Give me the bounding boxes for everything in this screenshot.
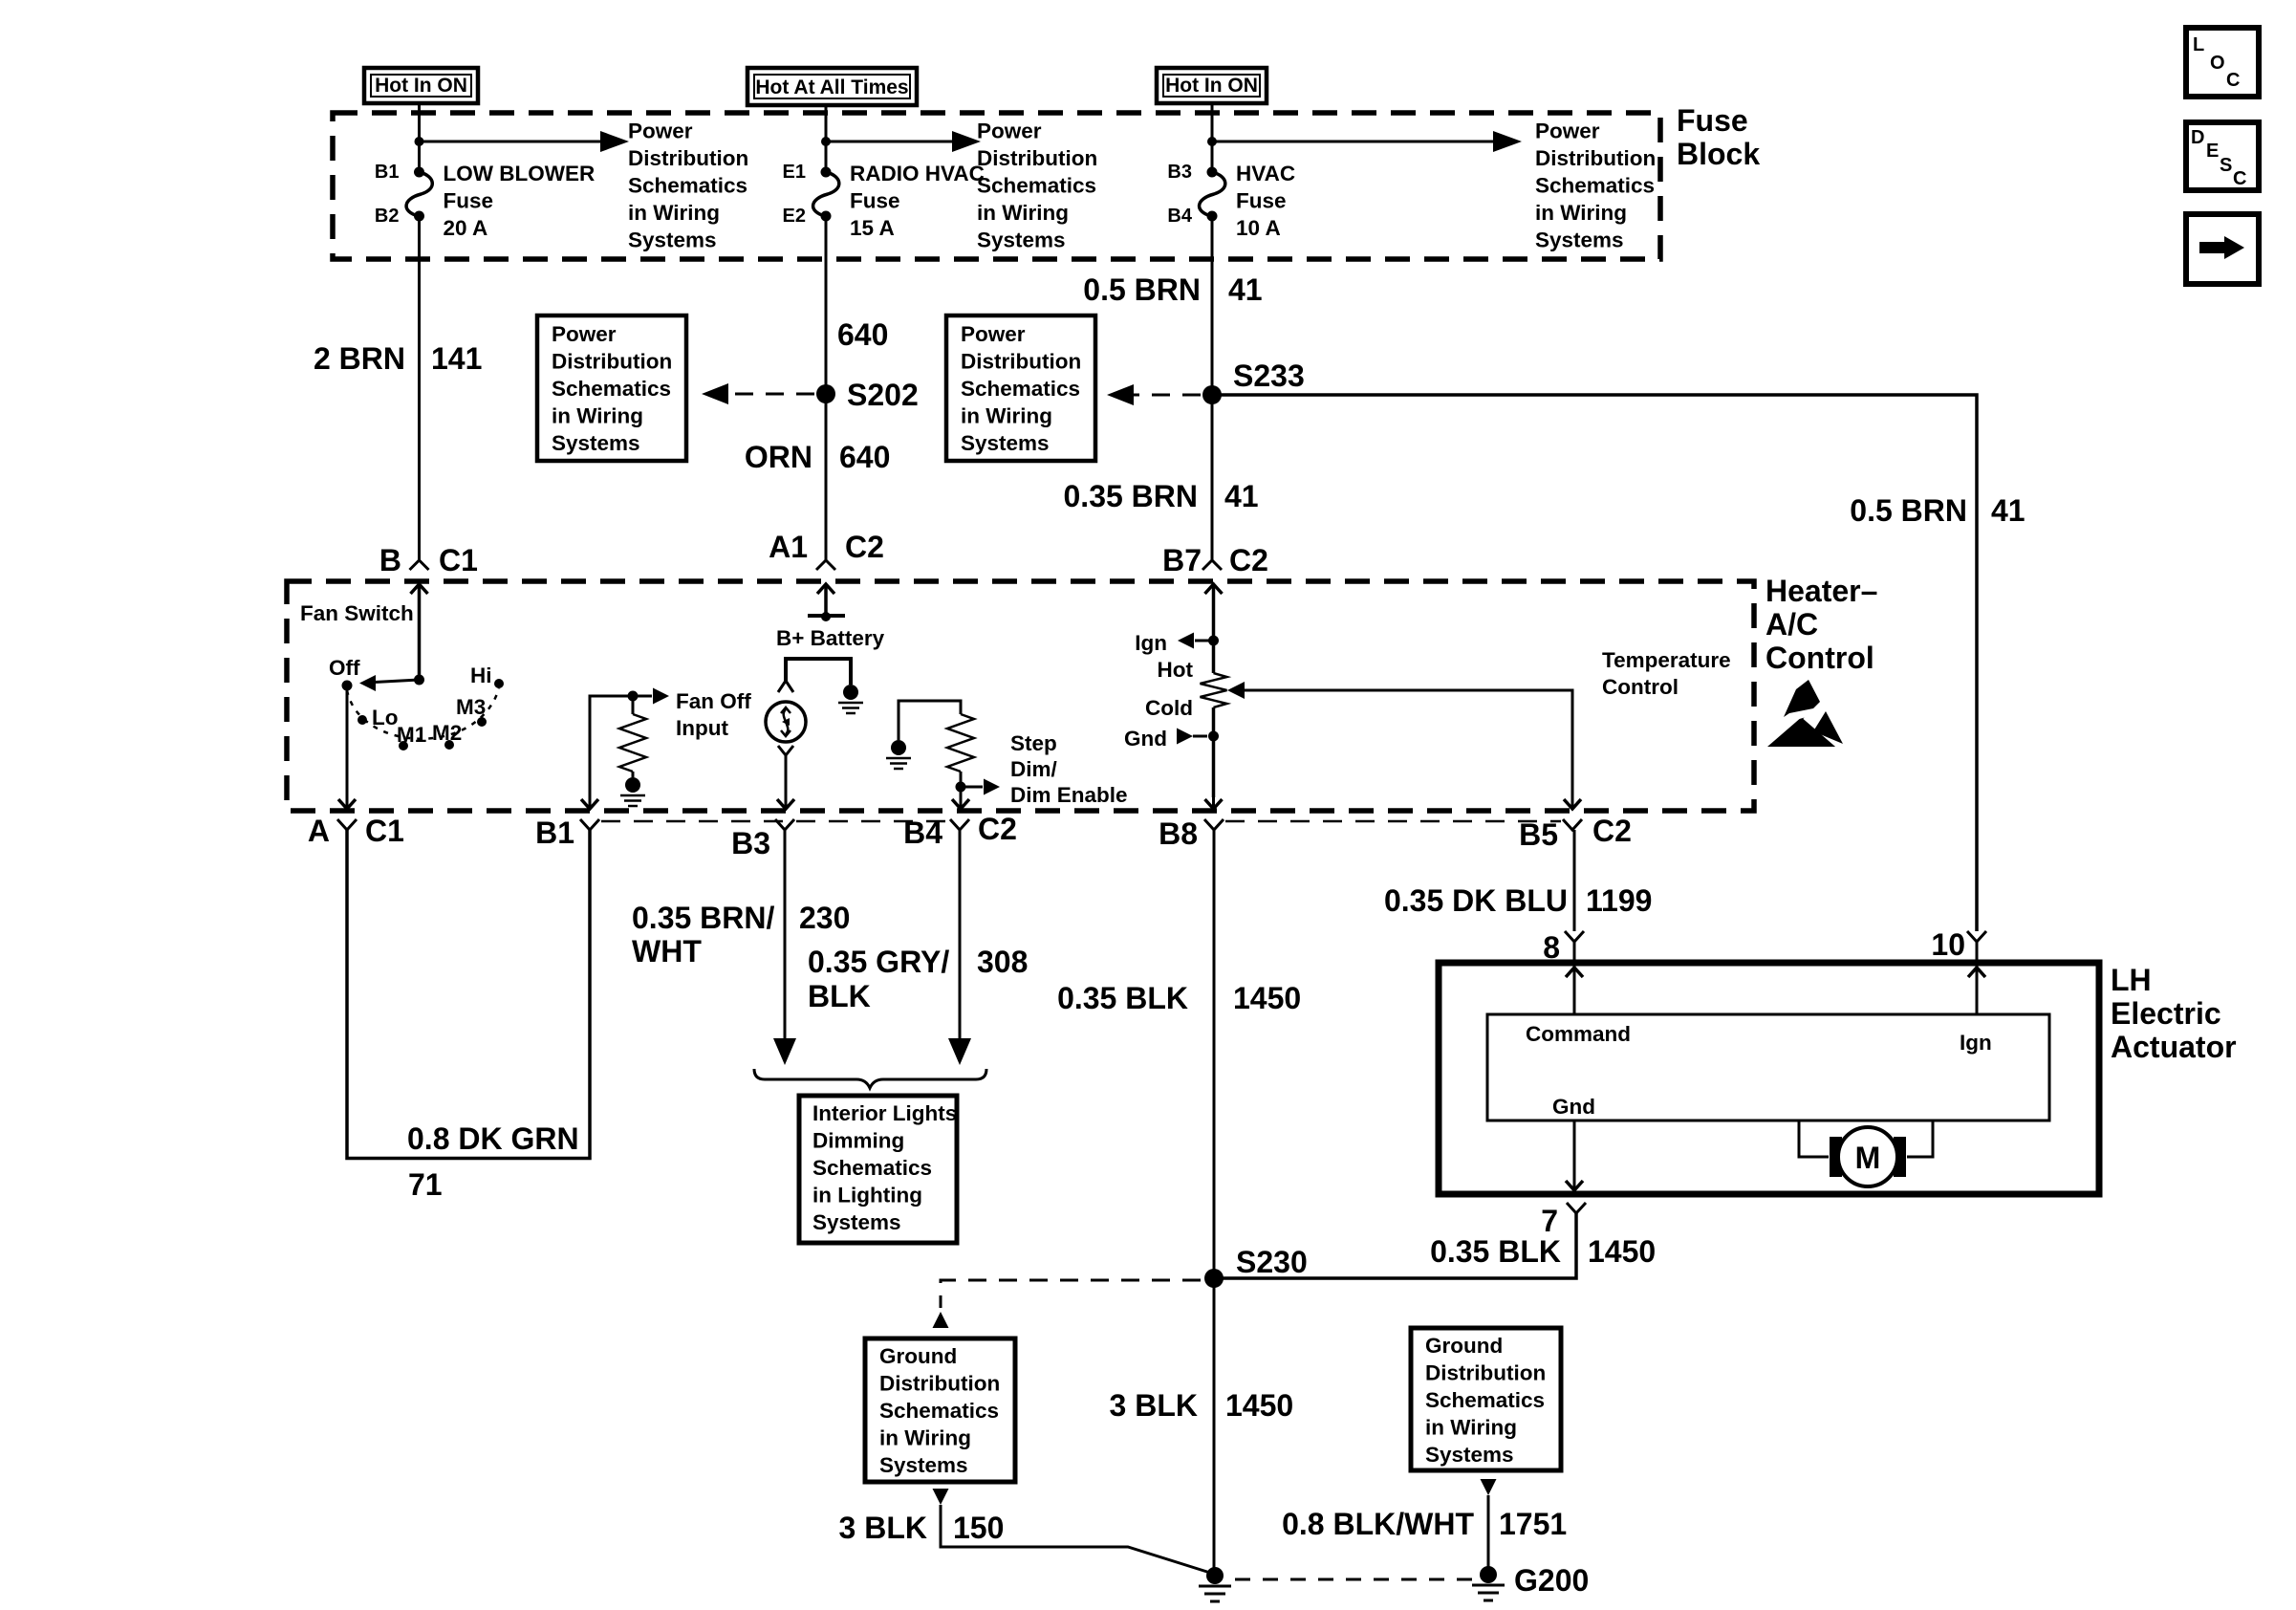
svg-text:S233: S233 <box>1233 359 1305 393</box>
svg-text:Control: Control <box>1602 675 1679 699</box>
fuse RADIO HVAC 15 A <box>821 167 832 178</box>
svg-text:10 A: 10 A <box>1236 216 1281 240</box>
svg-text:Schematics: Schematics <box>812 1156 932 1180</box>
svg-text:Schematics: Schematics <box>1425 1388 1545 1412</box>
wire 0.8 DK GRN 71 loop <box>347 830 590 1159</box>
svg-text:Distribution: Distribution <box>977 146 1097 170</box>
svg-text:3 BLK: 3 BLK <box>839 1511 927 1545</box>
svg-text:E: E <box>2206 141 2219 162</box>
svg-text:B4: B4 <box>903 816 942 850</box>
svg-text:Systems: Systems <box>961 431 1050 455</box>
svg-text:Power: Power <box>1535 120 1600 143</box>
svg-text:0.5 BRN: 0.5 BRN <box>1850 493 1967 528</box>
connector fork B1 <box>580 819 599 830</box>
svg-text:Fuse: Fuse <box>850 189 900 213</box>
svg-text:B: B <box>379 543 401 577</box>
svg-text:C: C <box>2233 168 2246 189</box>
wire 3 BLK 150 to ground <box>941 1505 1210 1573</box>
icon arrow <box>2186 214 2259 284</box>
svg-text:in Wiring: in Wiring <box>961 404 1052 428</box>
node junction on radio hvac feed <box>821 137 831 146</box>
dashed arrow S202 to power distribution <box>728 393 814 396</box>
svg-text:10: 10 <box>1931 927 1965 962</box>
svg-text:Distribution: Distribution <box>628 146 748 170</box>
svg-text:O: O <box>2210 53 2225 74</box>
svg-text:C2: C2 <box>978 812 1017 846</box>
svg-text:308: 308 <box>977 945 1028 979</box>
svg-text:Off: Off <box>329 656 360 680</box>
svg-text:Distribution: Distribution <box>879 1372 1000 1396</box>
potentiometer temperature control <box>1201 673 1227 707</box>
wire step dim top rail <box>899 701 961 740</box>
node Gnd tap <box>1208 731 1219 742</box>
svg-text:1450: 1450 <box>1233 981 1301 1015</box>
svg-text:230: 230 <box>799 901 850 935</box>
actuator module inner box <box>1487 1014 2049 1120</box>
wire from Hot In ON to fuse B1 <box>418 103 421 169</box>
svg-text:Systems: Systems <box>879 1453 968 1477</box>
ground G200 <box>1480 1566 1497 1583</box>
svg-text:0.5 BRN: 0.5 BRN <box>1083 272 1201 307</box>
connector fork B C1 <box>410 560 429 570</box>
wire pot to connector B8 <box>1212 707 1216 797</box>
wire arrow Fan Off Input <box>633 695 652 698</box>
reference box ground distribution (left) <box>865 1338 1015 1482</box>
svg-text:Block: Block <box>1677 137 1760 171</box>
svg-text:Distribution: Distribution <box>961 350 1081 374</box>
arrow below ground distribution right <box>1481 1479 1497 1495</box>
arrow out to connector B3 <box>777 799 794 809</box>
wire current source to B3 <box>785 755 788 797</box>
svg-text:Interior Lights: Interior Lights <box>812 1101 957 1125</box>
arrow out to connector B1 <box>581 799 598 809</box>
svg-text:Hot In ON: Hot In ON <box>1165 75 1258 97</box>
svg-text:Gnd: Gnd <box>1124 727 1167 751</box>
resistor step dim <box>947 714 974 772</box>
connector fork A1 C2 <box>816 560 835 570</box>
svg-text:Systems: Systems <box>628 228 717 252</box>
svg-text:Hi: Hi <box>470 664 492 687</box>
connector B8-B5 dashed link <box>1225 820 1561 823</box>
wire 2 BRN 141 fuse B2 to fan switch B <box>418 216 421 560</box>
fan switch rotary arc dashed <box>347 688 499 739</box>
svg-text:D: D <box>2191 127 2204 148</box>
svg-text:Distribution: Distribution <box>552 350 672 374</box>
svg-text:3 BLK: 3 BLK <box>1110 1388 1198 1423</box>
svg-text:15 A: 15 A <box>850 216 895 240</box>
node M1 contact <box>399 741 408 751</box>
svg-text:B3: B3 <box>731 826 770 860</box>
svg-text:Schematics: Schematics <box>552 377 671 401</box>
svg-text:C2: C2 <box>1229 543 1268 577</box>
svg-text:in Wiring: in Wiring <box>552 404 643 428</box>
fuse LOW BLOWER 20 A <box>414 167 424 178</box>
connector fork pin 10 <box>1967 931 1986 942</box>
svg-text:WHT: WHT <box>632 934 702 968</box>
svg-text:A1: A1 <box>769 530 808 564</box>
svg-text:B1: B1 <box>375 162 400 183</box>
svg-text:Ign: Ign <box>1135 631 1167 655</box>
wire Gnd to pin 7 <box>1573 1120 1576 1190</box>
wire from Hot In ON to fuse B3 <box>1211 103 1214 169</box>
svg-text:in Wiring: in Wiring <box>1535 201 1627 225</box>
svg-text:Fan Switch: Fan Switch <box>300 601 414 625</box>
connector fork B8 <box>1204 819 1224 830</box>
svg-text:Power: Power <box>961 322 1026 346</box>
svg-text:A: A <box>308 814 330 848</box>
svg-text:0.35 BLK: 0.35 BLK <box>1057 981 1188 1015</box>
wire pin 7 to S230 <box>1214 1213 1576 1278</box>
reference box interior lights dimming <box>799 1096 957 1243</box>
svg-text:B+ Battery: B+ Battery <box>776 626 885 650</box>
splice S202 <box>816 384 835 403</box>
svg-text:71: 71 <box>408 1167 443 1202</box>
svg-text:S230: S230 <box>1236 1245 1308 1279</box>
wire arrow Step Dim enable <box>961 786 983 789</box>
wire 0.5 BRN 41 from S233 to actuator pin 10 <box>1212 395 1977 931</box>
svg-text:Schematics: Schematics <box>961 377 1080 401</box>
svg-text:S202: S202 <box>847 378 919 412</box>
svg-text:150: 150 <box>953 1511 1004 1545</box>
svg-text:2 BRN: 2 BRN <box>314 341 405 376</box>
svg-text:Schematics: Schematics <box>977 174 1096 198</box>
svg-text:B4: B4 <box>1167 206 1192 227</box>
wire 0.8 BLK/WHT 1751 to G200 <box>1487 1495 1490 1568</box>
svg-text:B2: B2 <box>375 206 400 227</box>
power label box "Hot At All Times" <box>747 68 917 105</box>
svg-text:Systems: Systems <box>812 1210 901 1234</box>
svg-text:Systems: Systems <box>1425 1443 1514 1467</box>
svg-text:C: C <box>2226 70 2240 91</box>
ESD sensitive symbol <box>1767 716 1837 747</box>
connector fork B5 <box>1563 819 1582 830</box>
svg-text:41: 41 <box>1224 479 1259 513</box>
svg-text:0.35 BRN: 0.35 BRN <box>1064 479 1199 513</box>
wire 0.35 BLK 1450 B8 to S230 <box>1213 830 1216 1278</box>
svg-text:G200: G200 <box>1514 1563 1589 1598</box>
wire from Hot At All Times to fuse E1 <box>825 105 828 169</box>
svg-text:1751: 1751 <box>1499 1507 1567 1541</box>
wiper arrow temperature control <box>1227 682 1245 699</box>
arrow into fan switch from B <box>411 584 428 594</box>
wire pin 10 into module <box>1976 942 1979 1013</box>
svg-text:Hot In ON: Hot In ON <box>375 75 467 97</box>
svg-text:Hot At All Times: Hot At All Times <box>755 76 908 98</box>
battery feed tee <box>808 614 845 618</box>
wire motor right lead <box>1907 1120 1933 1157</box>
power label box "Hot In ON" (left) <box>364 68 478 103</box>
svg-text:E1: E1 <box>783 162 806 183</box>
svg-text:Power: Power <box>628 120 693 143</box>
connector fork pin 8 <box>1565 931 1584 942</box>
node Hi contact <box>494 679 504 688</box>
svg-text:Temperature: Temperature <box>1602 648 1731 672</box>
svg-text:Distribution: Distribution <box>1535 146 1656 170</box>
dashed arrow S233 to power distribution <box>1134 394 1201 397</box>
svg-text:B7: B7 <box>1162 543 1202 577</box>
node fan off junction <box>628 691 639 702</box>
dashed link main ground to G200 <box>1235 1578 1476 1581</box>
svg-text:in Wiring: in Wiring <box>977 201 1069 225</box>
svg-text:640: 640 <box>839 440 890 474</box>
brace interior lights <box>754 1069 986 1088</box>
wire arrow Gnd <box>1177 729 1193 745</box>
svg-text:640: 640 <box>837 317 888 352</box>
svg-text:M1: M1 <box>397 723 426 747</box>
wire 0.35 BRN/WHT 230 to interior lights <box>784 830 787 1038</box>
ground fan off resistor <box>625 777 640 793</box>
svg-text:B1: B1 <box>535 816 574 850</box>
motor M <box>1830 1137 1842 1177</box>
svg-text:Ground: Ground <box>879 1344 957 1368</box>
svg-text:Systems: Systems <box>977 228 1066 252</box>
node step dim junction <box>956 782 966 793</box>
wire arrow to power distribution (2) <box>826 141 952 143</box>
svg-text:Power: Power <box>552 322 617 346</box>
connector fork B7 C2 <box>1202 560 1222 570</box>
svg-text:Distribution: Distribution <box>1425 1361 1546 1385</box>
node M2 contact <box>444 740 454 750</box>
svg-text:Schematics: Schematics <box>879 1399 999 1423</box>
wire 0.35 DK BLU 1199 B5 to pin 8 <box>1573 830 1576 931</box>
wire ORN 640 fuse E2 to heater A1 <box>825 216 828 560</box>
svg-text:1199: 1199 <box>1586 883 1652 918</box>
svg-text:Ign: Ign <box>1960 1031 1992 1055</box>
fuse block dashed outline <box>333 113 1660 259</box>
svg-text:Fuse: Fuse <box>1236 189 1287 213</box>
svg-text:C2: C2 <box>845 530 884 564</box>
svg-text:Cold: Cold <box>1145 696 1193 720</box>
svg-text:C1: C1 <box>439 543 478 577</box>
power label box "Hot In ON" (right) <box>1157 68 1267 103</box>
svg-text:S: S <box>2220 155 2232 176</box>
reference box power distribution (right) <box>946 315 1095 461</box>
node junction on low blower feed <box>415 137 424 146</box>
wire arrow to power distribution (1) <box>420 141 601 143</box>
wire 3 BLK 1450 S230 to ground <box>1213 1278 1216 1570</box>
svg-text:BLK: BLK <box>808 979 871 1013</box>
wire junction to connector B4 <box>960 787 963 797</box>
wire arrow Ign <box>1195 640 1214 642</box>
ground battery rail <box>843 685 858 700</box>
fuse HVAC 10 A <box>1207 167 1218 178</box>
svg-text:0.35 GRY/: 0.35 GRY/ <box>808 945 949 979</box>
connector fork below current source <box>778 746 793 755</box>
svg-text:Systems: Systems <box>552 431 640 455</box>
svg-text:0.35 DK BLU: 0.35 DK BLU <box>1384 883 1568 918</box>
connector fork B4 <box>950 819 969 830</box>
arrow out to connector B4 <box>952 799 969 809</box>
svg-text:1450: 1450 <box>1225 1388 1293 1423</box>
arrow into heater at B7 <box>1205 584 1223 594</box>
connector fork A <box>337 819 357 830</box>
svg-text:Input: Input <box>676 716 728 740</box>
wire Off to connector A <box>346 685 349 797</box>
arrow below ground distribution left <box>933 1489 949 1505</box>
svg-text:Fuse: Fuse <box>444 189 494 213</box>
wire fan off branch <box>590 696 633 797</box>
svg-text:M: M <box>1855 1141 1881 1175</box>
svg-text:M2: M2 <box>432 721 462 745</box>
svg-text:0.8 DK GRN: 0.8 DK GRN <box>407 1121 579 1156</box>
wire arrow to power distribution (3) <box>1212 141 1493 143</box>
node fan switch common <box>414 675 424 685</box>
wire battery top rail <box>786 659 851 685</box>
svg-text:41: 41 <box>1991 493 2025 528</box>
svg-text:7: 7 <box>1541 1204 1558 1238</box>
svg-text:Control: Control <box>1765 641 1874 675</box>
svg-text:in Wiring: in Wiring <box>1425 1416 1517 1440</box>
wire 0.35 GRY/BLK 308 to interior lights <box>959 830 962 1038</box>
svg-text:LH: LH <box>2111 963 2152 997</box>
svg-text:Heater–: Heater– <box>1765 574 1877 608</box>
splice S233 <box>1202 385 1222 404</box>
svg-text:Gnd: Gnd <box>1552 1095 1595 1119</box>
wire 0.5 BRN 41 fuse B4 to heater B7 <box>1211 216 1214 560</box>
svg-text:E2: E2 <box>783 206 806 227</box>
svg-text:Dim Enable: Dim Enable <box>1010 783 1128 807</box>
svg-text:A/C: A/C <box>1765 607 1818 642</box>
svg-text:Power: Power <box>977 120 1042 143</box>
arrow out to connector B5 <box>1564 799 1581 809</box>
current source circle <box>766 702 806 742</box>
arrow out to connector B8 <box>1205 799 1223 809</box>
connector fork pin 7 <box>1567 1203 1586 1213</box>
icon LOC <box>2186 28 2259 97</box>
wire motor left lead <box>1799 1120 1829 1157</box>
svg-text:B8: B8 <box>1159 816 1198 851</box>
svg-text:0.35 BRN/: 0.35 BRN/ <box>632 901 775 935</box>
ground step dim <box>891 740 906 755</box>
svg-text:in Lighting: in Lighting <box>812 1184 922 1207</box>
reference box power distribution (left) <box>537 315 686 461</box>
connector C1-C2 dashed link <box>601 820 949 823</box>
connector fork B3 <box>775 819 794 830</box>
svg-text:in Wiring: in Wiring <box>879 1426 971 1450</box>
svg-text:C1: C1 <box>365 814 404 848</box>
node junction on hvac feed <box>1207 137 1217 146</box>
resistor fan off pull-down <box>632 696 635 714</box>
svg-text:Ground: Ground <box>1425 1334 1503 1358</box>
svg-text:0.8 BLK/WHT: 0.8 BLK/WHT <box>1282 1507 1474 1541</box>
svg-text:HVAC: HVAC <box>1236 162 1295 185</box>
svg-text:Schematics: Schematics <box>1535 174 1655 198</box>
svg-text:Dimming: Dimming <box>812 1129 904 1153</box>
svg-text:Systems: Systems <box>1535 228 1624 252</box>
node Lo contact <box>357 715 367 725</box>
ground G main <box>1206 1567 1224 1584</box>
arrow into heater at A1 <box>817 584 834 594</box>
svg-text:C2: C2 <box>1592 814 1632 848</box>
icon DESC <box>2186 122 2259 190</box>
svg-text:LOW BLOWER: LOW BLOWER <box>444 162 596 185</box>
reference box ground distribution (right) <box>1411 1328 1561 1470</box>
svg-text:41: 41 <box>1228 272 1263 307</box>
svg-text:Command: Command <box>1526 1022 1631 1046</box>
svg-text:B5: B5 <box>1519 817 1558 852</box>
svg-text:Step: Step <box>1010 731 1057 755</box>
svg-text:M3: M3 <box>456 695 486 719</box>
svg-text:1450: 1450 <box>1588 1234 1656 1269</box>
svg-text:Schematics: Schematics <box>628 174 747 198</box>
arrow out of fan switch to A <box>338 799 356 809</box>
svg-text:Dim/: Dim/ <box>1010 757 1058 781</box>
svg-text:Fan Off: Fan Off <box>676 689 751 713</box>
svg-text:Hot: Hot <box>1158 658 1194 682</box>
svg-text:in Wiring: in Wiring <box>628 201 720 225</box>
node Ign tap <box>1208 636 1219 646</box>
svg-text:Fuse: Fuse <box>1677 103 1748 138</box>
svg-text:0.35 BLK: 0.35 BLK <box>1430 1234 1561 1269</box>
svg-text:Lo: Lo <box>372 706 399 729</box>
svg-text:RADIO HVAC: RADIO HVAC <box>850 162 985 185</box>
node M3 contact <box>477 717 487 727</box>
dashed link S230 to ground distribution <box>941 1280 1201 1308</box>
svg-text:141: 141 <box>431 341 482 376</box>
connector fork above current source <box>778 681 793 692</box>
node Off contact <box>342 681 353 691</box>
actuator outer box <box>1439 963 2099 1194</box>
splice S230 <box>1204 1269 1224 1288</box>
heater a/c control dashed outline <box>287 581 1754 811</box>
svg-text:20 A: 20 A <box>444 216 488 240</box>
svg-text:ORN: ORN <box>745 440 812 474</box>
svg-text:L: L <box>2193 34 2204 55</box>
wire arrow to Off position <box>375 680 420 683</box>
svg-text:B3: B3 <box>1167 162 1192 183</box>
svg-text:Actuator: Actuator <box>2111 1030 2237 1064</box>
wire pin 8 into module <box>1573 942 1576 1013</box>
svg-text:Electric: Electric <box>2111 996 2221 1031</box>
